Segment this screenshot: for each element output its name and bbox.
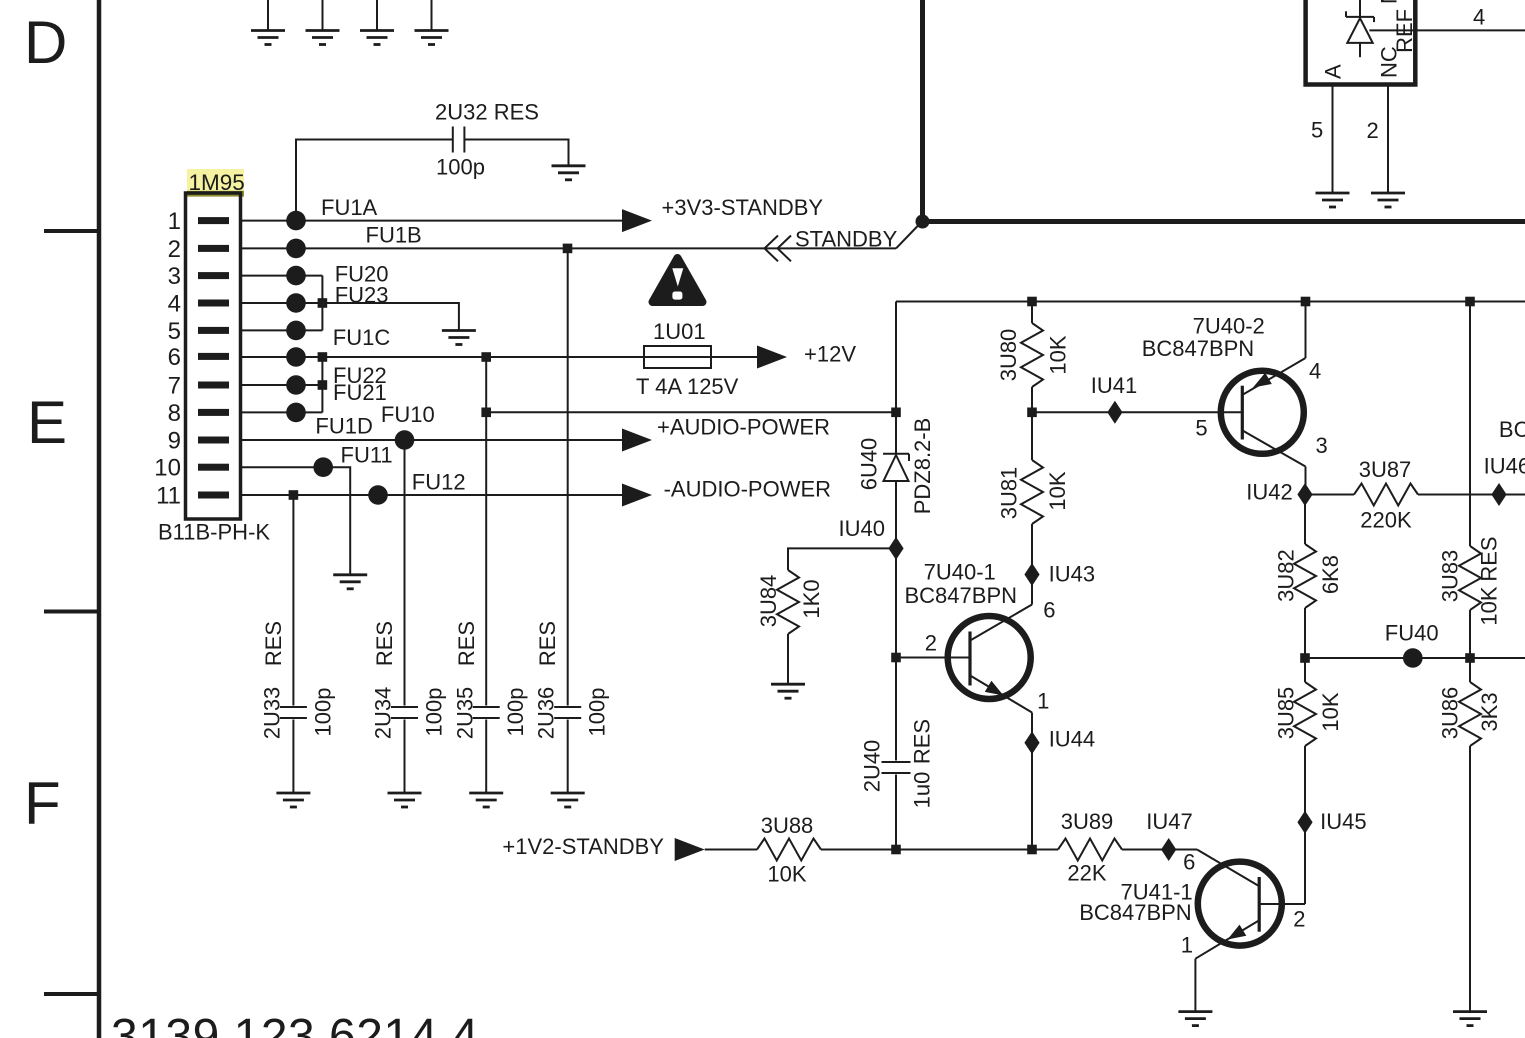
resistor 3U85 <box>1274 682 1344 746</box>
svg-text:FU11: FU11 <box>341 443 393 468</box>
junction FU40 <box>1385 620 1439 668</box>
svg-text:11: 11 <box>156 482 181 509</box>
svg-text:4: 4 <box>1473 4 1485 29</box>
junction pin3 <box>286 266 306 286</box>
svg-text:FU1D: FU1D <box>315 414 372 439</box>
wire emitter to IU44 <box>1031 713 1033 850</box>
svg-text:220K: 220K <box>1360 507 1412 532</box>
svg-text:IU46: IU46 <box>1484 454 1525 479</box>
ground 3U84 <box>771 684 805 698</box>
wire 2U34 to ground <box>404 720 406 794</box>
capacitor 2U40 <box>860 719 935 808</box>
svg-text:2U36: 2U36 <box>534 687 559 740</box>
junction FU1B to 2U36 column <box>563 244 573 254</box>
svg-text:3139 123 6214.4: 3139 123 6214.4 <box>111 1010 479 1038</box>
wire IC pin 5 <box>1332 85 1334 194</box>
junction pin6 <box>286 347 306 367</box>
svg-text:BC: BC <box>1499 417 1525 442</box>
svg-text:PDZ8.2-B: PDZ8.2-B <box>910 418 935 515</box>
junction audio feed left <box>481 408 491 418</box>
signal flag -AUDIO-POWER <box>622 484 652 507</box>
svg-text:3U84: 3U84 <box>756 575 781 628</box>
svg-text:1: 1 <box>1037 689 1049 714</box>
standby chevrons <box>765 236 792 262</box>
svg-text:7: 7 <box>168 372 181 399</box>
svg-text:100p: 100p <box>436 154 485 179</box>
wire 3U82 to FU40 rail <box>1304 608 1306 658</box>
svg-text:3U81: 3U81 <box>997 467 1022 520</box>
connector 1M95 body B11B-PH-K <box>154 193 270 545</box>
svg-text:5: 5 <box>1195 416 1207 441</box>
svg-text:IU42: IU42 <box>1246 480 1292 505</box>
svg-text:1K0: 1K0 <box>799 579 824 618</box>
capacitor 2U32 <box>435 100 539 180</box>
junction bracket pin4 <box>318 298 328 308</box>
wire pin6 +12V net <box>241 356 645 358</box>
svg-text:RES: RES <box>261 621 286 666</box>
wire IU40 branch to 3U84 <box>788 548 896 570</box>
thick bus vertical <box>920 0 925 222</box>
svg-text:2: 2 <box>1367 118 1379 143</box>
svg-text:RES: RES <box>535 621 560 666</box>
wire 2U33 to ground <box>292 720 294 794</box>
wire bracket pins 6-8 <box>321 357 323 412</box>
svg-text:IU41: IU41 <box>1091 373 1137 398</box>
junction rail at IU44 column <box>1027 845 1037 855</box>
svg-text:2: 2 <box>925 631 937 656</box>
wire pin5 stub <box>241 329 323 331</box>
svg-text:7U40-1: 7U40-1 <box>924 560 996 585</box>
fuse 1U01 <box>636 319 739 399</box>
top ground stub 4 <box>415 0 449 45</box>
wire 2U32 right leg <box>464 140 568 166</box>
svg-text:1: 1 <box>168 208 181 235</box>
svg-text:3U88: 3U88 <box>761 813 814 838</box>
wire +1V2 rail mid <box>821 849 1058 851</box>
svg-text:100p: 100p <box>585 688 610 737</box>
junction FU40 rail left <box>1300 653 1310 663</box>
ground IC pin 5 <box>1316 193 1350 207</box>
svg-text:BC847BPN: BC847BPN <box>1079 900 1192 925</box>
svg-text:+AUDIO-POWER: +AUDIO-POWER <box>657 415 830 440</box>
svg-text:4: 4 <box>1309 358 1321 383</box>
svg-text:10K: 10K <box>1318 692 1343 731</box>
ground 2U35 <box>469 793 503 807</box>
capacitor 2U36 <box>534 621 610 739</box>
svg-text:FU21: FU21 <box>333 380 387 405</box>
ground 7U41-1 emitter <box>1178 1012 1212 1026</box>
wire base diagonal 7U41-1 <box>1197 850 1258 886</box>
wire pin7 stub <box>241 384 323 386</box>
svg-text:3U83: 3U83 <box>1438 550 1463 603</box>
wire fuse to +12V flag <box>711 356 759 358</box>
svg-text:3U86: 3U86 <box>1438 687 1463 740</box>
svg-text:6: 6 <box>1043 597 1055 622</box>
resistor 3U82 <box>1274 544 1344 608</box>
top ground stub 2 <box>306 0 340 45</box>
svg-text:IU47: IU47 <box>1146 809 1192 834</box>
wire +1V2 rail left <box>705 849 757 851</box>
wire pin9 FU1D net <box>241 439 623 441</box>
svg-text:10K: 10K <box>1045 471 1070 510</box>
wire pin1 FU1A net <box>241 220 623 222</box>
svg-text:-AUDIO-POWER: -AUDIO-POWER <box>664 476 831 501</box>
zone tick bottom <box>44 992 99 996</box>
svg-text:3U87: 3U87 <box>1359 457 1412 482</box>
wire emitter 7U40-2 to top rail <box>1305 302 1307 359</box>
junction bracket pin6 <box>318 352 328 362</box>
wire 3U80 top lead <box>1031 302 1033 324</box>
junction pin7 <box>286 375 306 395</box>
svg-text:1u0: 1u0 <box>910 772 935 809</box>
junction FU10 <box>395 430 415 450</box>
svg-text:5: 5 <box>168 318 181 345</box>
svg-text:2U35: 2U35 <box>453 687 478 740</box>
signal flag +AUDIO-POWER <box>622 429 652 452</box>
svg-text:6U40: 6U40 <box>857 438 882 491</box>
svg-text:4: 4 <box>168 290 181 317</box>
wire 2U35 column <box>485 357 487 706</box>
diode 6U40 zener <box>857 418 936 515</box>
wire base 7U40-1 <box>896 657 969 659</box>
junction top rail 3U80 <box>1027 297 1037 307</box>
wire IC pin 4 REF <box>1415 29 1525 31</box>
junction FU40 rail right <box>1465 653 1475 663</box>
top ground stub 1 <box>251 0 285 45</box>
wire 3U87 to right edge <box>1418 494 1525 496</box>
thick bus horizontal <box>920 219 1525 224</box>
svg-text:1U01: 1U01 <box>653 319 706 344</box>
svg-text:7U40-2: 7U40-2 <box>1193 314 1265 339</box>
warning triangle symbol <box>653 258 703 302</box>
svg-text:IU45: IU45 <box>1320 809 1366 834</box>
node IU40 <box>839 516 904 560</box>
wire zener column mid <box>895 548 897 760</box>
svg-text:RES: RES <box>1477 536 1502 581</box>
svg-text:5: 5 <box>1311 117 1323 142</box>
junction rail at 2U40 column <box>891 845 901 855</box>
svg-text:10: 10 <box>154 455 181 482</box>
wire emitter 7U41-1 to ground <box>1194 959 1196 1012</box>
wire 2U36 column <box>567 248 569 705</box>
node IU47 <box>1146 809 1192 861</box>
ground 2U33 <box>276 793 310 807</box>
ground right column <box>1453 1012 1487 1026</box>
svg-text:2U40: 2U40 <box>860 740 885 793</box>
svg-text:6: 6 <box>1183 849 1195 874</box>
svg-text:2: 2 <box>1293 906 1305 931</box>
signal flag +3V3-STANDBY <box>622 209 652 232</box>
node IU45 <box>1297 809 1366 834</box>
junction base of 7U40-1 <box>891 653 901 663</box>
svg-text:3U89: 3U89 <box>1061 809 1114 834</box>
capacitor 2U35 <box>453 621 529 739</box>
wire pin4 stub <box>241 302 323 304</box>
svg-text:FU40: FU40 <box>1385 620 1439 645</box>
svg-text:6: 6 <box>168 344 181 371</box>
junction FU11 <box>313 457 333 477</box>
wire 3U83 to FU40 rail <box>1469 610 1471 682</box>
junction pin1 <box>286 211 306 231</box>
wire 3U84 to ground <box>787 634 789 684</box>
svg-text:1: 1 <box>1181 933 1193 958</box>
ground FU11 <box>333 575 367 589</box>
wire collector 7U40-2 to IU42 <box>1305 467 1307 495</box>
svg-text:IU40: IU40 <box>839 516 885 541</box>
svg-text:F: F <box>24 770 61 837</box>
wire 3U89 to IU47 <box>1122 849 1197 851</box>
resistor 3U88 <box>757 813 821 886</box>
wire 2U34 column <box>404 440 406 706</box>
svg-text:6K8: 6K8 <box>1318 555 1343 594</box>
svg-text:22K: 22K <box>1067 861 1106 886</box>
zone tick E/F <box>44 610 99 614</box>
connector 1M95 highlight label <box>187 169 245 197</box>
wire collector 7U41-1 <box>1261 903 1306 905</box>
svg-text:STANDBY: STANDBY <box>795 226 898 251</box>
IC shunt reference box <box>1306 0 1417 85</box>
junction IU41 node <box>1027 408 1037 418</box>
resistor 3U84 <box>756 570 824 634</box>
transistor 7U41-1 BC847BPN <box>1079 849 1305 958</box>
thick bus junction blob <box>916 215 930 229</box>
svg-text:100p: 100p <box>422 688 447 737</box>
svg-text:FU1C: FU1C <box>333 325 391 350</box>
svg-text:2U34: 2U34 <box>371 687 396 740</box>
ground FU23 <box>442 331 476 345</box>
wire FU11 to ground <box>323 467 350 575</box>
svg-text:IU43: IU43 <box>1049 561 1095 586</box>
wire 2U36 to ground <box>567 720 569 794</box>
svg-text:RES: RES <box>454 621 479 666</box>
wire bracket pins 3-5 <box>321 276 323 331</box>
ground IC pin 2 <box>1371 193 1405 207</box>
svg-text:10K: 10K <box>767 861 806 886</box>
wire FU40 rail <box>1305 657 1525 659</box>
svg-text:+1V2-STANDBY: +1V2-STANDBY <box>502 834 664 859</box>
wire standby diagonal <box>896 223 921 249</box>
wire pin10 stub <box>241 466 324 468</box>
wire right column upper <box>1469 302 1471 547</box>
svg-text:10K: 10K <box>1046 335 1071 374</box>
junction top rail right column <box>1465 297 1475 307</box>
svg-text:3U80: 3U80 <box>996 329 1021 382</box>
wire IU42 to 3U87 <box>1305 494 1354 496</box>
svg-text:D: D <box>24 9 67 76</box>
wire 2U40 to bottom rail <box>895 775 897 850</box>
svg-text:100p: 100p <box>310 688 335 737</box>
svg-text:FU10: FU10 <box>381 402 435 427</box>
wire zener column upper <box>895 302 897 549</box>
wire 2U33 column <box>292 495 294 706</box>
svg-text:3U82: 3U82 <box>1274 549 1299 602</box>
svg-text:RES: RES <box>372 621 397 666</box>
capacitor 2U33 <box>260 621 336 739</box>
node IU43 <box>1024 561 1095 586</box>
svg-text:2U33: 2U33 <box>260 687 285 740</box>
wire top rail <box>896 301 1525 303</box>
junction pin2 <box>286 239 306 259</box>
wire 2U32 left leg <box>296 140 453 221</box>
ground at 2U32 <box>552 166 586 180</box>
resistor 3U81 <box>997 460 1071 524</box>
ground 2U36 <box>551 793 585 807</box>
node IU44 <box>1024 727 1095 755</box>
frame border line <box>97 0 102 1038</box>
svg-text:10K: 10K <box>1477 586 1502 625</box>
node IU42 <box>1246 480 1312 506</box>
junction pin4 <box>286 293 306 313</box>
wire collector diagonal 7U40-1 <box>971 605 1032 641</box>
signal flag +12V <box>757 346 787 369</box>
wire 3U81 top lead <box>1031 412 1033 460</box>
svg-text:A: A <box>1321 64 1346 79</box>
node IU46 <box>1484 454 1525 507</box>
resistor 3U86 <box>1438 682 1503 746</box>
ground 2U34 <box>388 793 422 807</box>
junction FU12 <box>368 485 388 505</box>
top ground stub 3 <box>360 0 394 45</box>
svg-text:FU1A: FU1A <box>321 195 378 220</box>
resistor 3U80 <box>996 323 1071 387</box>
wire 2U35 to ground <box>485 720 487 794</box>
wire IC pin 2 <box>1387 85 1389 194</box>
resistor 3U89 <box>1058 809 1122 886</box>
svg-text:2: 2 <box>168 236 181 263</box>
svg-text:3U85: 3U85 <box>1274 687 1299 740</box>
svg-text:REF: REF <box>1392 9 1417 53</box>
zone tick D/E <box>44 229 99 233</box>
wire pin3 stub <box>241 275 323 277</box>
junction pin8 <box>286 403 306 423</box>
wire 3U85 to 7U41-1 collector <box>1304 746 1306 904</box>
svg-text:BC847BPN: BC847BPN <box>1142 336 1255 361</box>
junction pin6 to 2U35 column <box>481 352 491 362</box>
svg-text:3: 3 <box>168 263 181 290</box>
junction pin5 <box>286 321 306 341</box>
signal flag +1V2-STANDBY <box>675 838 705 861</box>
svg-text:3K3: 3K3 <box>1477 692 1502 731</box>
svg-text:FU12: FU12 <box>412 470 466 495</box>
wire pin8 stub <box>241 411 323 413</box>
svg-text:NC: NC <box>1377 0 1402 4</box>
capacitor 2U34 <box>371 621 447 739</box>
resistor 3U83 <box>1438 536 1502 625</box>
svg-text:IU44: IU44 <box>1049 727 1095 752</box>
svg-text:100p: 100p <box>503 688 528 737</box>
svg-text:+12V: +12V <box>804 341 856 366</box>
svg-text:3: 3 <box>1316 433 1328 458</box>
node IU41 <box>1091 373 1137 424</box>
wire pin11 -AUDIO net <box>241 494 623 496</box>
wire IU41 row <box>1032 411 1242 413</box>
wire 3U80 bottom lead <box>1031 387 1033 412</box>
wire 3U85 top lead <box>1304 658 1306 682</box>
svg-text:8: 8 <box>168 400 181 427</box>
junction pin11 to 2U33 column <box>289 490 299 500</box>
svg-text:BC847BPN: BC847BPN <box>905 583 1018 608</box>
wire audio feed row to zener column <box>486 411 896 413</box>
svg-text:FU1B: FU1B <box>366 223 422 248</box>
resistor 3U87 <box>1354 457 1418 532</box>
junction top rail 7U40-2 <box>1301 297 1311 307</box>
svg-text:T 4A 125V: T 4A 125V <box>636 374 739 399</box>
wire 3U82 column <box>1304 495 1306 545</box>
junction bracket pin7 <box>318 380 328 390</box>
wire pin2 FU1B net <box>241 247 897 249</box>
transistor 7U40-1 BC847BPN <box>905 560 1056 714</box>
junction audio feed right <box>891 408 901 418</box>
svg-text:RES: RES <box>910 719 935 764</box>
svg-text:+3V3-STANDBY: +3V3-STANDBY <box>662 195 824 220</box>
wire FU23 to ground <box>322 303 459 331</box>
svg-text:E: E <box>27 389 67 456</box>
transistor 7U40-2 BC847BPN <box>1142 314 1328 467</box>
svg-text:2U32 RES: 2U32 RES <box>435 100 539 125</box>
wire 3U81 to IU43 <box>1031 524 1033 605</box>
svg-text:B11B-PH-K: B11B-PH-K <box>158 520 270 545</box>
wire 3U86 to ground <box>1469 746 1471 1012</box>
svg-text:9: 9 <box>168 427 181 454</box>
